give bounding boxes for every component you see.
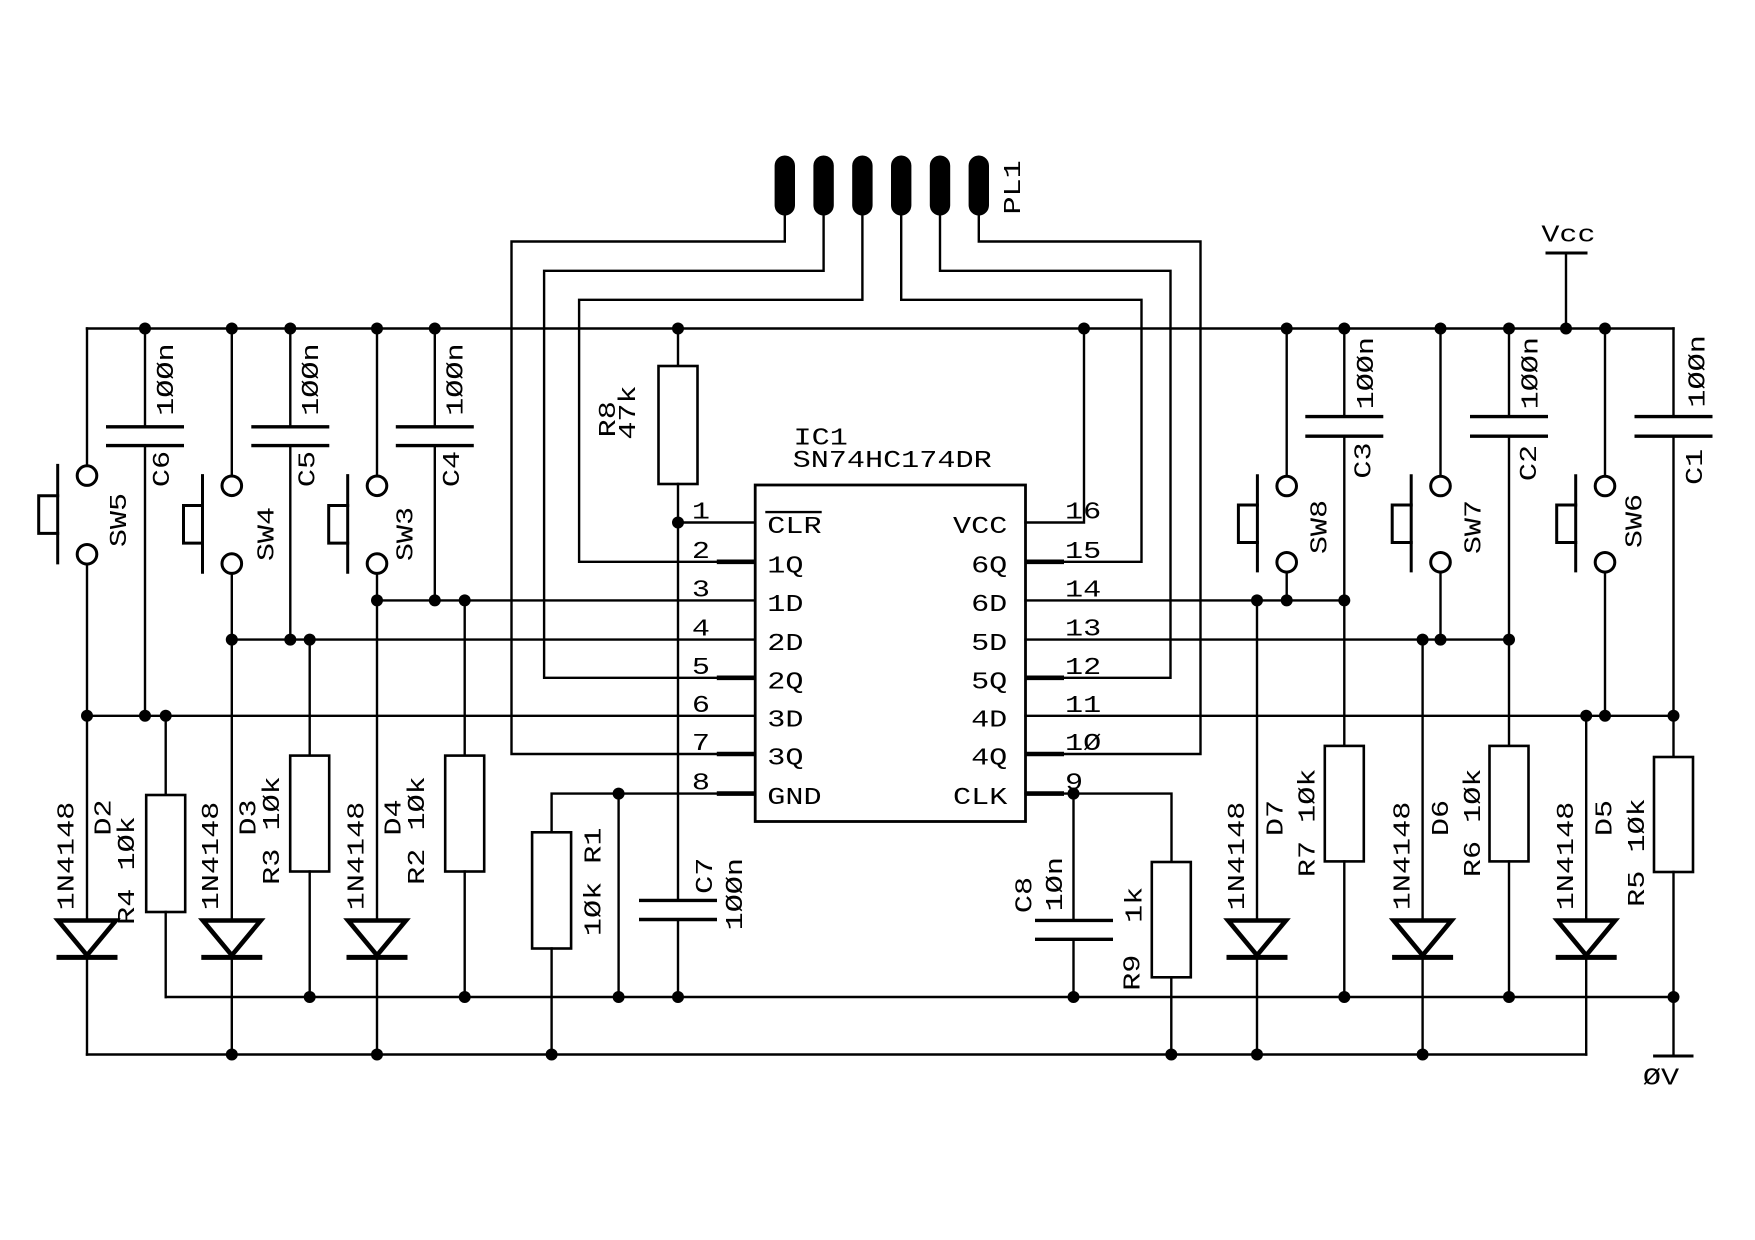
wire 6D row pin14 xyxy=(1026,599,1345,601)
svg-text:12: 12 xyxy=(1065,655,1101,682)
svg-text:1N4148: 1N4148 xyxy=(1391,802,1418,911)
svg-text:SW7: SW7 xyxy=(1461,500,1488,554)
wire R6 to row997 xyxy=(1508,861,1510,997)
wire C1 to 4D row xyxy=(1672,436,1674,716)
svg-text:C6: C6 xyxy=(150,451,177,487)
junction R4/3D xyxy=(160,710,172,722)
resistor R3 xyxy=(290,756,329,872)
bold stub pin15 6Q xyxy=(1026,559,1065,564)
wire 1D row to D4 anode xyxy=(376,600,378,920)
wire bus to C3 xyxy=(1343,329,1345,417)
resistor R6 xyxy=(1490,746,1529,862)
svg-text:1N4148: 1N4148 xyxy=(199,802,226,911)
wire PL1 pin2 to IC pin5 2Q xyxy=(544,216,824,678)
diode D2 1N4148 xyxy=(57,921,118,958)
svg-text:R4 1Øk: R4 1Øk xyxy=(115,816,142,925)
junction SW8/6D xyxy=(1281,594,1293,606)
wire D2 cathode to bottom bus xyxy=(86,957,88,1054)
svg-text:2Q: 2Q xyxy=(767,669,803,696)
junction C4/1D xyxy=(429,594,441,606)
wire CLR row pin1 xyxy=(678,521,755,523)
capacitor C7 xyxy=(639,858,750,931)
svg-text:C3: C3 xyxy=(1351,442,1378,478)
bold stub pin10 4Q xyxy=(1026,752,1065,757)
wire SW3 to 1D row xyxy=(376,573,378,600)
junction C1/4D/R5 xyxy=(1668,710,1680,722)
wire bus to SW7 xyxy=(1439,329,1441,477)
wire C5 to 2D row xyxy=(289,446,291,640)
svg-text:SN74HC174DR: SN74HC174DR xyxy=(793,448,992,475)
svg-text:R5 1Øk: R5 1Øk xyxy=(1625,798,1652,907)
svg-text:C4: C4 xyxy=(440,451,467,487)
svg-text:C7: C7 xyxy=(693,858,720,894)
wire 3D row to D2 anode xyxy=(86,716,88,921)
capacitor C2 xyxy=(1470,337,1548,481)
junction SW3/1D xyxy=(371,594,383,606)
svg-text:R9: R9 xyxy=(1121,955,1148,991)
svg-text:1Q: 1Q xyxy=(767,553,803,580)
svg-text:R6 1Øk: R6 1Øk xyxy=(1461,769,1488,878)
junction bus/SW4 xyxy=(226,323,238,335)
svg-text:4Q: 4Q xyxy=(971,746,1007,773)
junction SW7/5D xyxy=(1435,634,1447,646)
wire bus to C6 xyxy=(144,329,146,427)
bold stub pin5 2Q xyxy=(717,675,755,680)
wire PL1 pin4 to IC pin15 6Q xyxy=(901,216,1141,562)
svg-text:7: 7 xyxy=(692,731,710,758)
junction C2/5D/R6 xyxy=(1503,634,1515,646)
wire R5 to row997 xyxy=(1672,872,1674,997)
wire 5D row pin13 xyxy=(1026,638,1510,640)
junction bus/C4 xyxy=(429,323,441,335)
svg-text:C8: C8 xyxy=(1013,877,1040,913)
wire C6 to 3D row xyxy=(144,446,146,716)
switch SW3 xyxy=(329,476,421,574)
wire D4 cathode to bottom bus xyxy=(376,957,378,1054)
junction R9/bottom bus xyxy=(1165,1049,1177,1061)
svg-text:47k: 47k xyxy=(616,385,643,439)
wire 3D row to R4 xyxy=(164,716,166,795)
wire bus to C4 xyxy=(434,329,436,427)
svg-text:R3 1Øk: R3 1Øk xyxy=(260,776,287,885)
bold stub pin2 1Q xyxy=(717,559,755,564)
wire right rail to 0V xyxy=(1672,997,1674,1056)
wire R2 to row997 xyxy=(464,872,466,998)
wire CLK row pin9 xyxy=(1026,794,1172,862)
junction bus/Vcc stub xyxy=(1560,323,1572,335)
svg-text:SW8: SW8 xyxy=(1308,500,1335,554)
svg-text:2: 2 xyxy=(692,539,710,566)
wire Vcc top bus xyxy=(87,327,1674,329)
CLR overline xyxy=(767,511,821,513)
resistor R9 xyxy=(1152,862,1191,977)
svg-text:5D: 5D xyxy=(971,631,1007,658)
wire PL1 pin6 to IC pin10 4Q xyxy=(979,216,1201,755)
diode D3 1N4148 xyxy=(201,921,262,958)
junction bus/C2 xyxy=(1503,323,1515,335)
junction R1/bottom bus xyxy=(546,1049,558,1061)
wire C3 to 6D row xyxy=(1343,436,1345,600)
wire R9 to bottom bus xyxy=(1170,977,1172,1054)
wire 6D row to R7 xyxy=(1343,600,1345,746)
svg-text:6Q: 6Q xyxy=(971,553,1007,580)
junction R5/row997 xyxy=(1668,991,1680,1003)
wire D6 cathode to bottom bus xyxy=(1421,957,1423,1054)
wire bus to SW6 xyxy=(1604,329,1606,477)
wire D7 anode column xyxy=(1256,600,1258,920)
capacitor C8 xyxy=(1013,857,1114,939)
switch SW6 xyxy=(1557,476,1650,572)
junction D6/bottom bus xyxy=(1417,1049,1429,1061)
wire R7 to row997 xyxy=(1343,861,1345,997)
junction C5/2D xyxy=(284,634,296,646)
wire SW6 to 4D row xyxy=(1604,572,1606,716)
capacitor C1 xyxy=(1635,335,1713,485)
junction bus/SW8 xyxy=(1281,323,1293,335)
wire 4D row to R5 xyxy=(1672,716,1674,757)
diode D6 1N4148 xyxy=(1392,921,1453,958)
connector PL1 xyxy=(775,156,1028,216)
wire R1 to bottom bus xyxy=(550,949,552,1055)
junction rail/3D xyxy=(81,710,93,722)
svg-text:5: 5 xyxy=(692,655,710,682)
resistor R7 xyxy=(1325,746,1364,862)
resistor R5 xyxy=(1654,757,1693,872)
svg-text:5Q: 5Q xyxy=(971,669,1007,696)
svg-text:1ØØn: 1ØØn xyxy=(1685,335,1712,407)
wire PL1 pin5 to IC pin12 5Q xyxy=(940,216,1171,678)
resistor R1 xyxy=(532,832,571,948)
junction bus/R8 xyxy=(672,323,684,335)
wire row997 resistor-ground bus xyxy=(166,996,1674,998)
svg-text:1D: 1D xyxy=(767,592,803,619)
svg-text:CLK: CLK xyxy=(953,785,1008,812)
junction bus/C6 xyxy=(139,323,151,335)
svg-text:D7: D7 xyxy=(1263,800,1290,836)
junction R3/2D xyxy=(304,634,316,646)
junction bus/C3 xyxy=(1338,323,1350,335)
junction SW6/4D xyxy=(1599,710,1611,722)
junction GND link bottom xyxy=(613,991,625,1003)
switch SW4 xyxy=(184,476,282,574)
svg-text:GND: GND xyxy=(767,785,821,812)
svg-text:PL1: PL1 xyxy=(1001,160,1028,214)
svg-text:D6: D6 xyxy=(1429,800,1456,836)
svg-text:1Øk R1: 1Øk R1 xyxy=(582,828,609,937)
svg-text:6D: 6D xyxy=(971,592,1007,619)
junction bus/SW7 xyxy=(1435,323,1447,335)
junction bus/SW6 xyxy=(1599,323,1611,335)
wire GND row pin8 xyxy=(552,794,756,833)
wire D3 cathode to bottom bus xyxy=(231,957,233,1054)
junction R2/1D xyxy=(459,594,471,606)
capacitor C3 xyxy=(1305,337,1383,479)
wire PL1 pin1 to IC pin7 3Q xyxy=(512,216,785,755)
svg-text:SW3: SW3 xyxy=(394,507,421,561)
svg-text:ØV: ØV xyxy=(1643,1066,1680,1093)
wire bus to SW3 xyxy=(376,329,378,477)
junction SW4/2D xyxy=(226,634,238,646)
svg-text:SW5: SW5 xyxy=(107,493,134,547)
junction D6/5D xyxy=(1417,634,1429,646)
junction D3/bottom bus xyxy=(226,1049,238,1061)
wire C8 to row997 xyxy=(1072,939,1074,997)
svg-text:C5: C5 xyxy=(295,451,322,487)
wire R3 to row997 xyxy=(309,872,311,998)
junction GND link top xyxy=(613,788,625,800)
switch SW8 xyxy=(1238,476,1334,572)
svg-text:1ØØn: 1ØØn xyxy=(299,343,326,415)
wire C4 to 1D row xyxy=(434,446,436,601)
junction VCC16/bus xyxy=(1078,323,1090,335)
wire 1D row to R2 xyxy=(464,600,466,755)
wire IC pin16 VCC to bus xyxy=(1026,329,1085,523)
svg-text:3Q: 3Q xyxy=(767,746,803,773)
svg-text:4D: 4D xyxy=(971,707,1007,734)
junction C3/6D/R7 xyxy=(1338,594,1350,606)
junction R3/row997 xyxy=(304,991,316,1003)
capacitor C5 xyxy=(251,343,329,487)
svg-text:1ØØn: 1ØØn xyxy=(154,343,181,415)
svg-text:1Øn: 1Øn xyxy=(1043,857,1070,911)
junction D4/bottom bus xyxy=(371,1049,383,1061)
wire SW8 to 6D row xyxy=(1285,572,1287,600)
wire PL1 pin3 to IC pin2 1Q xyxy=(579,216,862,562)
diode D5 1N4148 xyxy=(1556,921,1617,958)
wire bus to SW4 xyxy=(231,329,233,477)
diode D4 1N4148 xyxy=(347,921,408,958)
wire 2D row to R3 xyxy=(309,640,311,756)
junction R2/row997 xyxy=(459,991,471,1003)
wire SW5 to 3D row xyxy=(86,564,88,716)
bold stub pin9 CLK xyxy=(1026,791,1065,796)
wire D5 cathode to bottom bus xyxy=(1585,957,1587,1054)
wire D5 anode column xyxy=(1585,716,1587,921)
capacitor C6 xyxy=(106,343,184,487)
bold stub pin8 GND xyxy=(717,791,755,796)
svg-text:SW4: SW4 xyxy=(255,507,282,561)
junction D7/bottom bus xyxy=(1251,1049,1263,1061)
wire D6 anode column xyxy=(1421,640,1423,921)
bold stub pin12 5Q xyxy=(1026,675,1065,680)
junction bus/C5 xyxy=(284,323,296,335)
wire bus to SW8 xyxy=(1285,329,1287,477)
switch SW5 xyxy=(39,465,134,564)
switch SW7 xyxy=(1392,476,1488,572)
bold stub pin7 3Q xyxy=(717,752,755,757)
svg-text:3D: 3D xyxy=(767,707,803,734)
wire 2D row to D3 anode xyxy=(231,640,233,921)
wire R8 to CLR row and C7 xyxy=(677,484,679,900)
resistor R8 xyxy=(596,366,697,484)
wire 5D row to R6 xyxy=(1508,640,1510,746)
svg-text:1N4148: 1N4148 xyxy=(344,802,371,911)
svg-text:1k: 1k xyxy=(1123,887,1150,923)
junction D5/4D xyxy=(1580,710,1592,722)
wire C2 to 5D row xyxy=(1508,436,1510,639)
svg-text:1Ø: 1Ø xyxy=(1065,731,1101,758)
Vcc power symbol xyxy=(1541,223,1595,329)
wire GND link to row997 xyxy=(617,794,619,997)
wire bottom bus 1054 xyxy=(87,1053,1586,1055)
wire SW7 to 5D row xyxy=(1439,572,1441,640)
resistor R4 xyxy=(146,795,185,912)
diode D7 1N4148 xyxy=(1227,921,1288,958)
wire C8 column xyxy=(1072,794,1074,921)
svg-text:R7 1Øk: R7 1Øk xyxy=(1296,769,1323,878)
svg-text:R2 1Øk: R2 1Øk xyxy=(405,776,432,885)
svg-text:SW6: SW6 xyxy=(1622,494,1649,548)
wire C7 to gnd row xyxy=(677,920,679,998)
junction R6/row997 xyxy=(1503,991,1515,1003)
wire 4D row pin11 xyxy=(1026,715,1674,717)
resistor R2 xyxy=(445,756,484,872)
svg-text:D5: D5 xyxy=(1593,800,1620,836)
wire bus to C5 xyxy=(289,329,291,427)
junction C7/row997 xyxy=(672,991,684,1003)
wire left rail bus to SW5 xyxy=(86,329,88,466)
svg-text:15: 15 xyxy=(1065,539,1101,566)
junction CLR xyxy=(672,517,684,529)
svg-text:1N4148: 1N4148 xyxy=(55,802,82,911)
svg-text:1N4148: 1N4148 xyxy=(1554,802,1581,911)
svg-text:1ØØn: 1ØØn xyxy=(1354,337,1381,409)
wire R4 to row997 xyxy=(164,912,166,997)
wire bus corner to C1 xyxy=(1672,329,1674,417)
svg-text:1ØØn: 1ØØn xyxy=(444,343,471,415)
svg-text:C1: C1 xyxy=(1683,449,1710,485)
svg-text:1ØØn: 1ØØn xyxy=(723,858,750,930)
ground 0V symbol xyxy=(1643,1056,1692,1093)
junction bus/SW3 xyxy=(371,323,383,335)
wire 3D row xyxy=(87,715,755,717)
wire bus to C2 xyxy=(1508,329,1510,417)
junction C8/row997 xyxy=(1068,991,1080,1003)
junction R7/row997 xyxy=(1338,991,1350,1003)
wire SW4 to 2D row xyxy=(231,573,233,639)
svg-text:Vcc: Vcc xyxy=(1541,223,1595,250)
junction CLK/C8 xyxy=(1068,788,1080,800)
wire D7 cathode to bottom bus xyxy=(1256,957,1258,1054)
svg-text:C2: C2 xyxy=(1517,445,1544,481)
svg-text:1ØØn: 1ØØn xyxy=(1519,337,1546,409)
capacitor C4 xyxy=(396,343,474,487)
svg-text:CLR: CLR xyxy=(767,514,821,541)
junction D7/6D xyxy=(1251,594,1263,606)
op IC1 SN74HC174DR box xyxy=(755,485,1025,822)
junction C6/3D xyxy=(139,710,151,722)
wire 1D row xyxy=(377,599,755,601)
svg-text:2D: 2D xyxy=(767,631,803,658)
svg-text:VCC: VCC xyxy=(953,514,1007,541)
wire bus to R8 xyxy=(677,329,679,367)
svg-text:1N4148: 1N4148 xyxy=(1225,802,1252,911)
wire 2D row xyxy=(232,638,755,640)
